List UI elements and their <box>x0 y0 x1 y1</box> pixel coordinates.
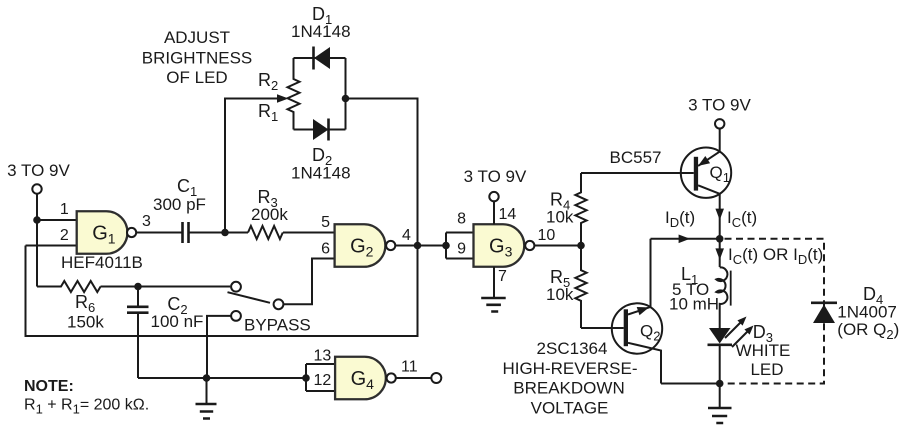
svg-text:3: 3 <box>142 213 151 230</box>
svg-text:WHITE: WHITE <box>736 341 791 360</box>
svg-text:2: 2 <box>60 227 69 244</box>
node B bottom junction <box>716 380 724 388</box>
pot wiper arrowhead <box>277 94 289 103</box>
wire right branch of pot network <box>345 58 347 130</box>
svg-text:IC(t): IC(t) <box>727 208 757 230</box>
wire supply to R6 <box>36 194 38 287</box>
current arrow IC(t) on Q1 collector <box>715 208 757 230</box>
nand gate G4 <box>335 357 396 400</box>
wire G2 output to G3 inputs <box>395 245 446 247</box>
wire Q2 emitter rail <box>661 383 720 385</box>
terminal G4 output <box>431 373 441 383</box>
wire G4 input bracket pins 13 and 12 <box>306 364 335 391</box>
inductor L1 5 TO 10 mH <box>669 264 731 314</box>
switch blade <box>228 292 271 303</box>
wire pin 7 to ground <box>493 267 495 298</box>
wire G3 input bracket pins 8 and 9 <box>446 233 474 259</box>
svg-text:12: 12 <box>314 372 332 389</box>
node R4/R5/base junction <box>577 242 585 250</box>
svg-text:6: 6 <box>321 240 330 257</box>
supply terminal 3 TO 9V (left) <box>7 161 70 194</box>
supply terminal 3 TO 9V (Q1) <box>688 96 751 129</box>
switch BYPASS contact <box>231 311 311 335</box>
resistor R3 200k <box>248 187 288 239</box>
wire BYPASS contact to ground rail <box>207 316 231 378</box>
wire pot wiper down to node <box>225 99 279 233</box>
svg-text:BYPASS: BYPASS <box>244 316 311 335</box>
svg-text:5: 5 <box>321 214 330 231</box>
svg-text:R1: R1 <box>258 101 278 124</box>
wire G4 output to terminal <box>396 377 432 379</box>
node ground rail / ground symbol <box>203 374 211 382</box>
svg-text:OF LED: OF LED <box>166 68 227 87</box>
node R6/C2 junction <box>134 283 142 291</box>
note text <box>24 378 149 417</box>
svg-text:300 pF: 300 pF <box>153 195 206 214</box>
svg-text:10k: 10k <box>546 208 574 227</box>
led D3 WHITE LED <box>708 317 791 384</box>
svg-text:R1 + R1= 200 kΩ.: R1 + R1= 200 kΩ. <box>24 397 149 417</box>
svg-text:1N4007: 1N4007 <box>837 303 897 322</box>
nand gate G3 <box>474 224 535 267</box>
svg-text:9: 9 <box>457 240 466 257</box>
wire pin 1 of G1 <box>37 219 77 221</box>
node G3 input bracket junction <box>442 242 450 250</box>
dashed box with D4 alternative path <box>725 239 825 384</box>
potentiometer R2/R1 <box>258 58 300 130</box>
ground (logic stage) <box>196 378 217 419</box>
svg-text:BREAKDOWN: BREAKDOWN <box>513 379 624 398</box>
wire R6 to switch <box>101 286 231 288</box>
svg-text:1: 1 <box>60 201 69 218</box>
svg-text:7: 7 <box>498 268 507 285</box>
wire R5 to Q2 base <box>581 327 624 329</box>
svg-text:10 mH: 10 mH <box>669 295 719 314</box>
wire ground rail (C2 to G4 inputs) <box>138 377 306 379</box>
diode D4 1N4007 (OR Q2) <box>811 284 899 342</box>
svg-text:ID(t): ID(t) <box>665 208 695 230</box>
svg-text:NOTE:: NOTE: <box>24 378 74 395</box>
wire pin 14 <box>493 201 495 224</box>
svg-text:1N4148: 1N4148 <box>291 22 351 41</box>
resistor R6 150k <box>37 281 104 332</box>
node G2 output / feedback junction <box>414 242 422 250</box>
wire R4 to Q1 base <box>581 172 694 174</box>
wire Q2 collector to node A <box>651 238 720 240</box>
svg-text:8: 8 <box>457 210 466 227</box>
ground (output stage) <box>708 384 732 424</box>
wire G3 output to R4/R5 node <box>534 245 581 247</box>
svg-text:100 nF: 100 nF <box>151 312 204 331</box>
svg-text:11: 11 <box>401 358 418 375</box>
ground (G3 pin 7) <box>481 298 506 312</box>
wire switch to G2 pin 6 <box>284 259 335 305</box>
transistor Q1 BC557 <box>681 129 731 239</box>
node pot-network output <box>342 95 350 103</box>
svg-text:Q1: Q1 <box>710 163 730 185</box>
current arrowhead ID <box>679 235 690 244</box>
label 2SC1364 HIGH-REVERSE-BREAKDOWN VOLTAGE <box>502 339 637 418</box>
svg-text:150k: 150k <box>67 313 104 332</box>
node A main output junction <box>716 235 724 243</box>
node C1/R3/pot junction <box>221 229 229 237</box>
svg-text:3 TO 9V: 3 TO 9V <box>464 167 527 186</box>
svg-text:VOLTAGE: VOLTAGE <box>531 399 609 418</box>
transistor Q2 2SC1364 <box>612 239 662 384</box>
resistor R4 10k <box>546 173 587 246</box>
svg-text:200k: 200k <box>251 205 288 224</box>
wire pin 2 of G1 <box>26 245 77 247</box>
switch upper contact <box>231 282 241 292</box>
node G4 input junction <box>302 374 310 382</box>
wire C1 to R3 <box>189 232 249 234</box>
wire bottom branch with D2 <box>294 129 346 131</box>
wire L1 to D3 <box>719 307 721 328</box>
resistor R5 10k <box>546 246 587 329</box>
svg-text:13: 13 <box>314 347 332 364</box>
capacitor C2 100 nF <box>127 287 203 379</box>
svg-text:10: 10 <box>538 227 556 244</box>
diode D2 1N4148 <box>291 119 351 183</box>
svg-text:Q2: Q2 <box>640 322 660 344</box>
svg-text:BRIGHTNESS: BRIGHTNESS <box>142 49 253 68</box>
svg-text:10k: 10k <box>546 285 574 304</box>
svg-text:R2: R2 <box>258 70 278 93</box>
label ADJUST BRIGHTNESS OF LED <box>142 28 253 87</box>
switch middle contact <box>274 299 284 309</box>
svg-text:3 TO 9V: 3 TO 9V <box>7 161 70 180</box>
svg-text:IC(t) OR ID(t): IC(t) OR ID(t) <box>728 245 823 267</box>
wire pot network to G2 output node and feedback loop to G1 pin 2 <box>26 99 418 337</box>
svg-text:3 TO 9V: 3 TO 9V <box>688 96 751 115</box>
nand gate G1 <box>77 211 137 254</box>
wire R3 to G2 pin 5 <box>283 232 335 234</box>
svg-text:1N4148: 1N4148 <box>291 164 351 183</box>
wire top branch with D1 <box>294 57 346 59</box>
wire G1 output to C1 <box>136 232 182 234</box>
svg-text:LED: LED <box>750 360 783 379</box>
svg-text:BC557: BC557 <box>610 148 662 167</box>
svg-text:HEF4011B: HEF4011B <box>61 253 143 272</box>
svg-text:4: 4 <box>402 227 411 244</box>
capacitor C1 <box>153 176 206 243</box>
nand gate G2 <box>335 224 396 267</box>
svg-text:(OR Q2): (OR Q2) <box>837 320 899 342</box>
svg-text:14: 14 <box>499 206 517 223</box>
node supply/pin1 junction <box>33 216 41 224</box>
diode D1 1N4148 <box>291 4 351 70</box>
current arrow IC(t) OR ID(t) below node A <box>715 239 823 267</box>
supply terminal 3 TO 9V (G3 pin 14) <box>464 167 527 201</box>
svg-text:2SC1364: 2SC1364 <box>537 339 608 358</box>
svg-text:ADJUST: ADJUST <box>164 28 230 47</box>
svg-text:HIGH-REVERSE-: HIGH-REVERSE- <box>502 359 637 378</box>
